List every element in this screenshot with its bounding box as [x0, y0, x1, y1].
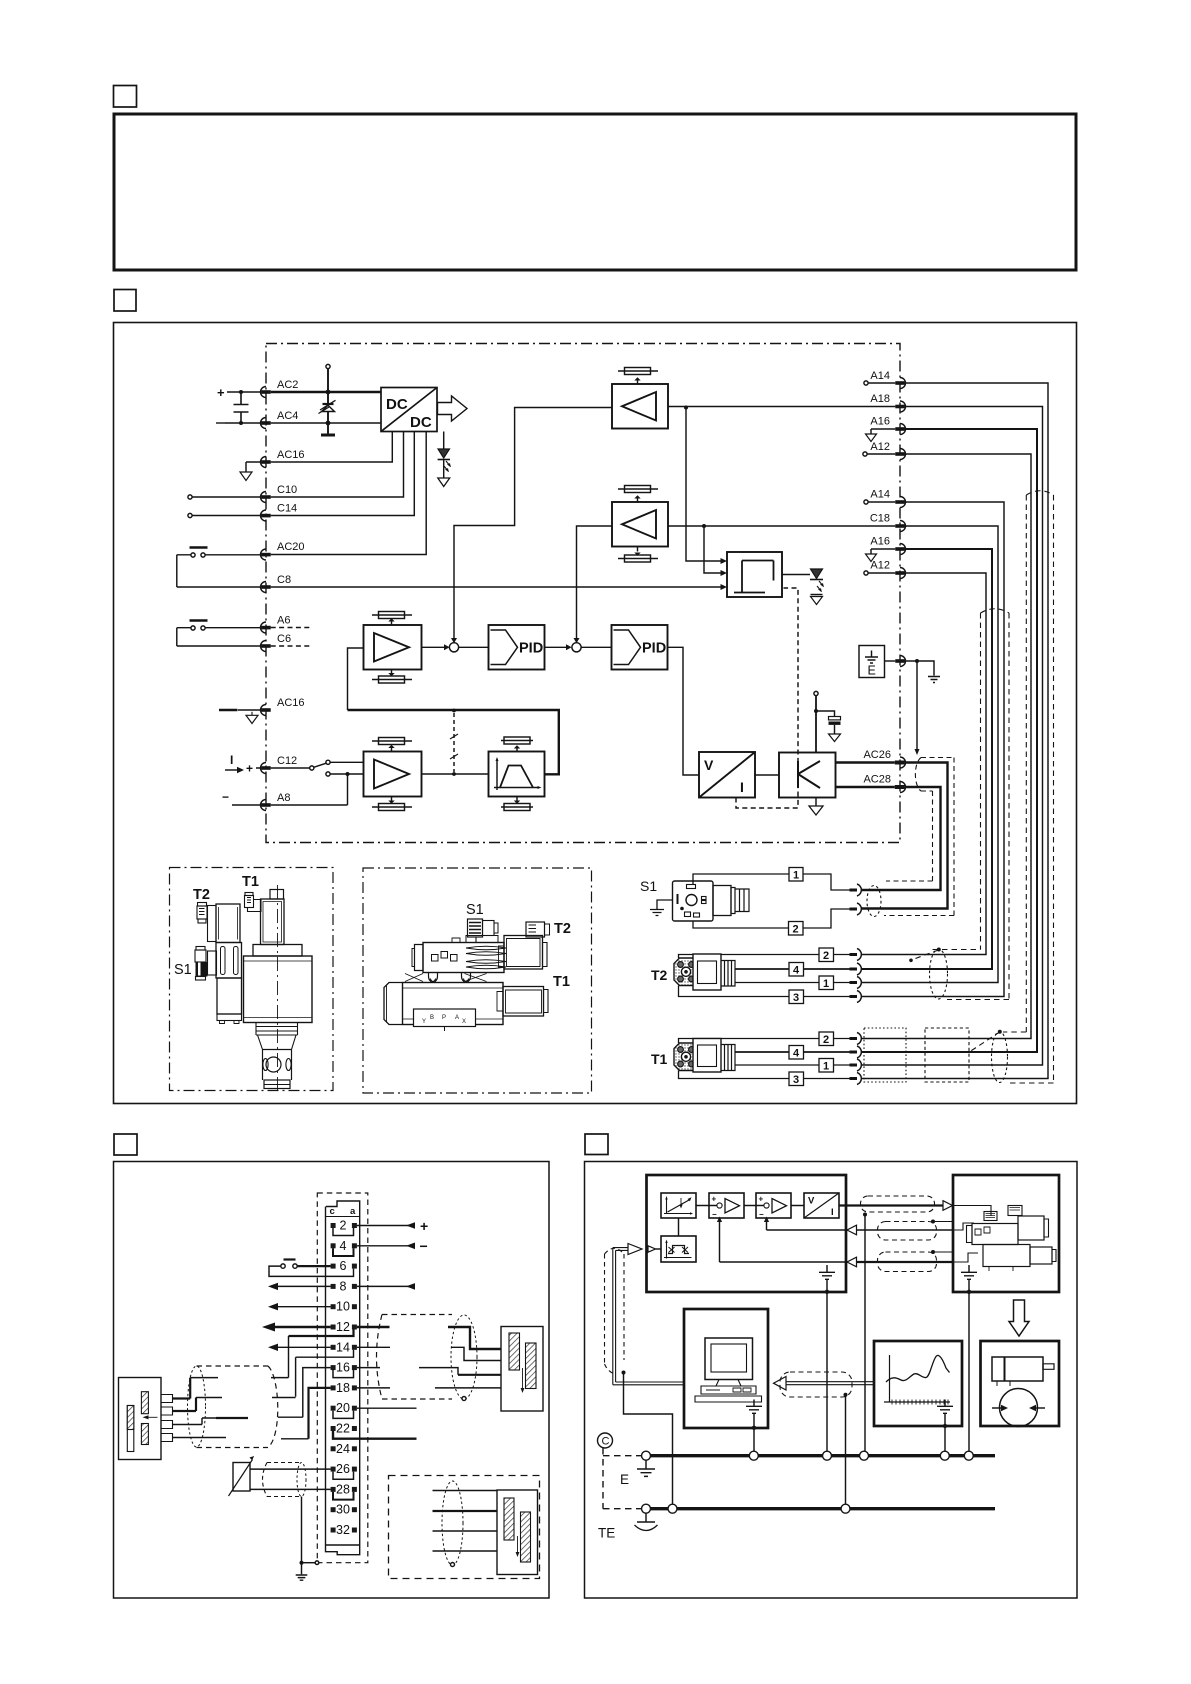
label S1 — [174, 962, 192, 978]
osc cable shield — [780, 1372, 852, 1397]
S1 cable shield ellipse — [867, 886, 881, 917]
T2 label — [651, 967, 668, 983]
valve1 lower solenoid — [217, 978, 242, 1014]
T1 cable shield dashes — [969, 491, 1054, 1083]
svg-text:T2: T2 — [193, 887, 210, 903]
AC16 ground arrow — [246, 462, 261, 472]
pot below C18 amp — [618, 547, 658, 559]
AC20 enable switch — [190, 546, 208, 548]
oscilloscope box — [874, 1341, 962, 1426]
valve1 dash-dot frame — [170, 868, 334, 1091]
svg-text:+: + — [759, 1195, 764, 1204]
wire pin a16 to cable right — [357, 1367, 380, 1369]
offset pot below input amp — [372, 797, 412, 808]
wire AC28 to S1 contact 1 — [861, 787, 941, 890]
pot above C18 amp — [618, 489, 658, 502]
svg-text:C12: C12 — [277, 755, 297, 767]
wire pin a18 to solenoid — [357, 1387, 501, 1389]
T1 label — [651, 1051, 668, 1067]
svg-text:c: c — [330, 1206, 335, 1217]
T1 gland ribs — [721, 1045, 735, 1071]
T2 solenoid on valve2 — [504, 936, 543, 970]
svg-text:3: 3 — [793, 992, 799, 1004]
tag 1 — [789, 868, 803, 882]
svg-text:C14: C14 — [277, 503, 297, 515]
wire AC4 to DC/DC — [271, 422, 381, 424]
valve unit internal wiring — [953, 1206, 992, 1217]
supply wire pin a2 — [357, 1225, 415, 1227]
S1 cable gland — [713, 886, 731, 916]
amplifier unit box — [647, 1175, 847, 1292]
svg-text:A8: A8 — [277, 792, 290, 804]
svg-text:T1: T1 — [242, 874, 259, 890]
command amplifier (A18) — [612, 384, 668, 429]
T2 flange — [674, 958, 698, 986]
hysteresis inputs — [686, 408, 722, 562]
T1 solenoid body — [261, 899, 285, 945]
svg-text:A16: A16 — [870, 536, 890, 548]
T2 tag 3 — [789, 990, 804, 1004]
left solenoid terminal tabs — [161, 1395, 173, 1442]
svg-text:S1: S1 — [174, 962, 192, 978]
TE earth — [645, 1513, 647, 1521]
block chain wires — [696, 1205, 804, 1207]
summing amplifier 1 — [709, 1193, 744, 1218]
supply wire AC2 — [227, 391, 261, 393]
cable shield 3 — [878, 1252, 937, 1272]
oscilloscope ground — [944, 1400, 946, 1407]
ramp output feedback (thick) — [348, 710, 559, 774]
A16b zero stub — [871, 549, 895, 554]
V/I output to valve (thick) — [839, 1204, 943, 1206]
svg-text:+: + — [217, 385, 225, 400]
T2 cable shield dashes — [911, 609, 1009, 1000]
E pin wire to chassis — [905, 661, 934, 676]
pilot valve body — [423, 943, 504, 973]
wire C18 pin to C18 amp — [668, 525, 895, 527]
svg-text:C: C — [602, 1436, 610, 1448]
pot above feedback amp — [372, 615, 412, 625]
V to I converter — [699, 752, 755, 798]
valve1 center line — [277, 885, 279, 1091]
label T1 — [242, 874, 259, 890]
BOX 4 : SYSTEM GROUNDING DIAGRAM — [585, 1134, 1078, 1598]
box3 frame — [114, 1162, 550, 1599]
svg-text:AC26: AC26 — [863, 749, 891, 761]
svg-text:4: 4 — [793, 965, 800, 977]
ramp time pot above — [501, 741, 533, 752]
svg-text:I: I — [230, 753, 233, 767]
summing junction 1 — [449, 643, 458, 652]
svg-text:AC20: AC20 — [277, 541, 305, 553]
TE bus nodes — [642, 1504, 851, 1513]
T1 tag 1 — [819, 1059, 834, 1073]
svg-text:C6: C6 — [277, 633, 291, 645]
T1 solenoid on valve2 — [503, 987, 544, 1017]
external command potentiometer — [233, 1463, 250, 1492]
ramp generator block — [489, 752, 545, 797]
svg-text:AC16: AC16 — [277, 449, 305, 461]
spare solenoid dashed box — [389, 1476, 540, 1579]
svg-text:26: 26 — [336, 1462, 350, 1476]
wire A14b to T2 pin3 — [861, 502, 1004, 997]
cylinder icon — [992, 1357, 1043, 1381]
svg-text:AC4: AC4 — [277, 410, 298, 422]
status LED — [782, 574, 810, 576]
svg-text:2: 2 — [793, 924, 799, 936]
input range switch — [310, 766, 314, 770]
valve1 flange — [253, 945, 302, 957]
cartridge taper — [258, 1035, 297, 1050]
svg-text:TE: TE — [598, 1526, 615, 1541]
pin squares both columns — [331, 1223, 357, 1533]
svg-text:4: 4 — [340, 1239, 347, 1253]
S1 wire to tag 1 — [693, 874, 789, 885]
bridge loop pin 16 — [333, 1370, 354, 1378]
plus terminal — [217, 385, 225, 400]
PID2 output to V/I — [668, 647, 700, 775]
T2 plug fitting — [198, 903, 207, 907]
C12 wire — [256, 767, 310, 769]
valve2 dash-dot frame — [363, 868, 592, 1093]
E to cable shield drop — [916, 661, 918, 751]
MAIN-DIAGRAM — [177, 364, 906, 815]
S1 wire to tag 2 — [693, 921, 789, 928]
valve1 main body — [244, 956, 313, 1023]
valve unit drawing — [967, 1206, 1057, 1272]
T2 wires to tags — [679, 955, 850, 959]
bridge loop pin 28 — [333, 1492, 354, 1500]
svg-text:AC2: AC2 — [277, 379, 298, 391]
feedback return 2 (thick) — [720, 1220, 857, 1262]
svg-text:−: − — [420, 1238, 428, 1254]
svg-text:C10: C10 — [277, 484, 297, 496]
E ground — [645, 1460, 647, 1468]
wire AC26 to S1 contact 2 — [861, 763, 948, 909]
svg-text:28: 28 — [336, 1482, 350, 1496]
wire pin c10 with arrow — [278, 1306, 331, 1308]
svg-text:22: 22 — [336, 1422, 350, 1436]
wire feedback amp to summing 1 — [422, 646, 449, 648]
shield 1 drain to E bus — [863, 1213, 867, 1217]
summing junction 2 — [572, 643, 581, 652]
svg-text:1: 1 — [823, 978, 829, 990]
power output hollow arrow — [438, 396, 468, 421]
VALVE DRAWING 1 (cartridge valve) — [170, 868, 334, 1092]
cartridge nose — [264, 1080, 290, 1089]
S1 contact 2 — [850, 908, 858, 911]
TE bus bar — [646, 1507, 995, 1510]
T1 plug fitting — [245, 893, 253, 896]
T1 connector housing — [693, 1039, 721, 1073]
wire V/I to output stage — [755, 774, 779, 776]
svg-text:S1: S1 — [466, 902, 484, 918]
svg-text:8: 8 — [340, 1279, 347, 1293]
svg-text:A12: A12 — [870, 560, 890, 572]
T2 solenoid body — [216, 904, 240, 943]
svg-text:A18: A18 — [870, 393, 890, 405]
svg-text:12: 12 — [336, 1320, 350, 1334]
wire C18 to T2 pin1 — [861, 526, 998, 983]
svg-text:T2: T2 — [651, 967, 668, 983]
tag 2 — [789, 922, 804, 936]
T1 cable shield ellipse — [992, 1032, 1008, 1083]
wire pin a14 to cable right — [357, 1346, 390, 1348]
svg-text:−: − — [222, 790, 229, 804]
wire A12b to T2 pin2 — [861, 573, 986, 955]
zero symbol below output stage — [815, 798, 817, 806]
svg-text:24: 24 — [336, 1442, 350, 1456]
bridge loop pin 26 — [333, 1472, 354, 1480]
svg-text:18: 18 — [336, 1381, 350, 1395]
arrow into amplifier — [628, 1244, 642, 1255]
S1 port block — [208, 951, 217, 975]
svg-text:S1: S1 — [640, 878, 657, 894]
spare solenoid wires — [433, 1491, 498, 1552]
header box — [114, 114, 1076, 270]
A6 C6 switch — [190, 619, 208, 621]
main diagram box — [114, 323, 1077, 1104]
svg-text:PID: PID — [642, 641, 666, 657]
RIGHT SIDE ROUTING — [859, 381, 1048, 1079]
oscilloscope axes — [884, 1355, 950, 1402]
wire A18 to T1 pin1 — [861, 407, 1043, 1066]
svg-text:32: 32 — [336, 1523, 350, 1537]
svg-text:T2: T2 — [554, 921, 571, 937]
pilot ribbed section — [466, 946, 506, 955]
port plate — [414, 1009, 476, 1027]
hysteresis comparator block — [727, 552, 782, 597]
button return wire to a6 — [269, 1266, 354, 1276]
external supply terminal above output stage — [814, 691, 818, 695]
svg-text:AC28: AC28 — [863, 774, 891, 786]
S1 cable shield dashes — [884, 758, 954, 916]
wire pin c18 from left cable thick — [309, 1388, 331, 1439]
cartridge neck rings — [256, 1023, 298, 1036]
svg-text:A14: A14 — [870, 370, 890, 382]
oscilloscope trace — [886, 1355, 950, 1382]
T2 gland ribs — [721, 961, 735, 987]
svg-text:4: 4 — [793, 1048, 800, 1060]
svg-text:X: X — [462, 1019, 466, 1025]
shield drain to ground — [301, 1497, 303, 1563]
svg-text:A6: A6 — [277, 615, 290, 627]
connector body outline — [326, 1201, 360, 1555]
A6 C6 dashed stubs — [271, 628, 311, 647]
wire A12 to T1 pin2 — [861, 454, 1031, 1039]
dashed reference box — [603, 1448, 644, 1509]
svg-text:E: E — [868, 664, 876, 678]
shield drain to TE — [624, 1373, 673, 1509]
svg-text:14: 14 — [336, 1340, 350, 1354]
C10 external terminal — [188, 495, 192, 499]
svg-text:1: 1 — [823, 1061, 829, 1073]
T1 contacts — [850, 1039, 858, 1079]
DC/DC rail to C14 — [271, 432, 415, 516]
T1 tag 4 — [789, 1046, 804, 1060]
svg-text:+: + — [712, 1195, 717, 1204]
command wire pin c12 thick with arrow — [275, 1326, 331, 1328]
T1 flange — [674, 1043, 698, 1071]
valve1 pilot section — [216, 943, 242, 979]
S1 VALVE CONNECTOR — [640, 868, 861, 936]
potentiometer cable shield — [263, 1463, 301, 1497]
svg-text:I: I — [831, 1207, 834, 1218]
S1 plug — [196, 947, 205, 951]
PID controller 1 — [489, 625, 545, 670]
wire pin a20 stub — [357, 1407, 417, 1409]
T2 plug on valve2 — [526, 922, 545, 937]
command branch from amp1 into summing 1 — [454, 408, 612, 641]
wire pin c14 with arrow — [278, 1346, 331, 1348]
S1 plug on valve2 — [468, 919, 483, 937]
svg-text:3: 3 — [793, 1074, 799, 1086]
T1 tag 3 — [789, 1072, 804, 1086]
T1 solenoid cap — [270, 890, 284, 900]
wire PID1 to summing 2 — [545, 646, 571, 648]
LED power indicator — [443, 432, 445, 450]
bridge loop pin 2 — [333, 1228, 354, 1236]
svg-text:E: E — [620, 1472, 629, 1487]
characteristic generator block — [661, 1193, 696, 1218]
suppressor diode with terminal — [326, 364, 330, 368]
T2 tag 1 — [819, 976, 834, 990]
bridge loop pin 20 — [333, 1411, 354, 1419]
battery capacitor — [234, 392, 249, 423]
svg-text:A: A — [455, 1015, 459, 1021]
T1 tag 2 — [819, 1032, 834, 1046]
A8 wire — [232, 774, 348, 805]
A12b stub terminal — [864, 571, 868, 575]
checkbox 2 — [114, 290, 136, 312]
right pin contacts on card edge — [895, 378, 906, 793]
cartridge ports — [266, 1057, 281, 1072]
wire pin c16 from left cable — [303, 1368, 331, 1418]
wire AC4 left — [225, 422, 261, 424]
svg-text:A14: A14 — [870, 489, 890, 501]
E terminal box — [859, 646, 885, 678]
drop a12 to internal solenoid cable — [289, 1330, 354, 1337]
wire pin a12 to cable right — [357, 1326, 390, 1328]
serial cable double line riser — [613, 1248, 684, 1385]
A14 stub terminal — [864, 381, 868, 385]
label T2 — [193, 887, 210, 903]
svg-text:+: + — [246, 762, 253, 776]
amplifier internal ground — [826, 1265, 828, 1272]
minus terminal — [216, 422, 225, 424]
feedback return 1 — [767, 1220, 857, 1230]
potentiometer cable ellipse — [297, 1463, 306, 1497]
svg-text:T1: T1 — [651, 1051, 668, 1067]
support pillars — [405, 974, 487, 982]
wire pin c28 from potentiometer — [250, 1488, 331, 1490]
svg-text:−: − — [759, 1210, 764, 1219]
wire summing1 to PID1 — [459, 646, 489, 648]
test link dashed — [453, 713, 455, 772]
svg-text:P: P — [442, 1015, 446, 1021]
T1 wires to tags — [679, 1039, 850, 1044]
cartridge sleeve — [263, 1050, 292, 1081]
pot below feedback amp — [372, 670, 412, 680]
svg-text:6: 6 — [340, 1259, 347, 1273]
svg-text:16: 16 — [336, 1361, 350, 1375]
wire summing2 to PID2 — [581, 646, 611, 648]
A16 zero stub — [871, 429, 895, 434]
svg-text:V: V — [808, 1196, 815, 1207]
T2 contacts — [850, 955, 858, 997]
output stage block — [779, 753, 836, 798]
E bus nodes — [642, 1451, 974, 1460]
left cable ellipse — [188, 1366, 206, 1447]
label T1 — [553, 974, 570, 990]
E bus bar — [646, 1454, 995, 1457]
oscilloscope to PC cable — [786, 1382, 874, 1385]
ramp time pot below — [501, 797, 533, 808]
T2 cable shield ellipse — [930, 949, 948, 999]
svg-text:−: − — [712, 1210, 717, 1219]
PC box — [684, 1309, 768, 1428]
gain pot above input amp — [372, 741, 412, 752]
svg-text:+: + — [420, 1218, 428, 1234]
input amplifier block — [364, 752, 422, 797]
cable shield 2 — [878, 1222, 937, 1241]
amplifier card dash-dot border — [266, 344, 900, 843]
current input arrow — [225, 769, 238, 771]
T2 VALVE CONNECTOR — [651, 609, 1009, 1004]
right cable ellipse — [451, 1315, 477, 1399]
svg-text:I: I — [740, 779, 744, 795]
DC/DC rail to C10 — [271, 432, 404, 498]
left pin contacts on card edge — [261, 387, 271, 811]
feedback transducer amplifier (C18) — [612, 502, 668, 547]
S1 label — [640, 878, 657, 894]
spare solenoid body — [497, 1490, 538, 1575]
supply wire pin a4 — [357, 1245, 415, 1247]
T2 tag 4 — [789, 963, 804, 977]
wire input amp to ramp — [422, 773, 489, 775]
T2 coil tube — [208, 906, 217, 942]
svg-text:DC: DC — [386, 396, 408, 413]
right cable shield (to external solenoid) — [377, 1315, 453, 1400]
DC/DC rail to AC16 — [271, 432, 393, 463]
svg-text:C18: C18 — [870, 513, 890, 525]
C8 wire — [177, 586, 722, 588]
svg-text:a: a — [350, 1206, 356, 1217]
pot above command amplifier — [618, 371, 658, 384]
wire A16 to T1 pin4 (thick) — [861, 429, 1037, 1052]
pin number column — [336, 1219, 350, 1538]
wire AC2 to DC/DC (thick) — [271, 391, 381, 394]
oscillator block — [661, 1236, 696, 1262]
wire A18 pin to command amp — [668, 406, 895, 408]
svg-text:T1: T1 — [553, 974, 570, 990]
svg-text:2: 2 — [823, 1034, 829, 1046]
dashed link output stage to hysteresis — [736, 588, 798, 808]
wire pin c8 with arrow — [278, 1285, 331, 1287]
svg-text:2: 2 — [340, 1219, 347, 1233]
DC/DC converter — [381, 388, 437, 432]
PC icon — [695, 1338, 762, 1402]
spare cable ellipse — [442, 1481, 463, 1565]
riser cable shield dashes — [605, 1248, 625, 1374]
T1 VALVE CONNECTOR — [651, 491, 1054, 1086]
current input label I — [222, 753, 253, 804]
left solenoid wires with cable twists — [173, 1397, 191, 1399]
measuring zero symbol below LED — [811, 594, 823, 596]
S1 contact 1 — [850, 889, 858, 892]
svg-text:AC16: AC16 — [277, 697, 305, 709]
bridge pin 22 with long tail — [333, 1431, 417, 1439]
